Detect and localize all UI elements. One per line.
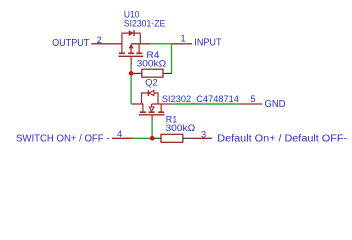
svg-text:1: 1 <box>181 34 186 44</box>
svg-text:3: 3 <box>201 129 206 139</box>
svg-text:300kΩ: 300kΩ <box>137 58 167 68</box>
svg-text:GND: GND <box>265 99 286 110</box>
svg-text:INPUT: INPUT <box>194 38 221 49</box>
svg-text:SI2301-ZE: SI2301-ZE <box>124 19 166 29</box>
svg-text:300kΩ: 300kΩ <box>166 123 196 133</box>
svg-text:OUTPUT: OUTPUT <box>52 38 89 49</box>
svg-text:4: 4 <box>117 129 122 139</box>
svg-text:SI2302_C4748714: SI2302_C4748714 <box>162 94 239 105</box>
svg-text:2: 2 <box>97 35 102 45</box>
svg-text:Default On+ / Default OFF-: Default On+ / Default OFF- <box>217 134 347 145</box>
svg-text:Q2: Q2 <box>145 78 157 88</box>
svg-text:5: 5 <box>250 94 255 104</box>
svg-text:SWITCH ON+ / OFF -: SWITCH ON+ / OFF - <box>16 134 110 145</box>
